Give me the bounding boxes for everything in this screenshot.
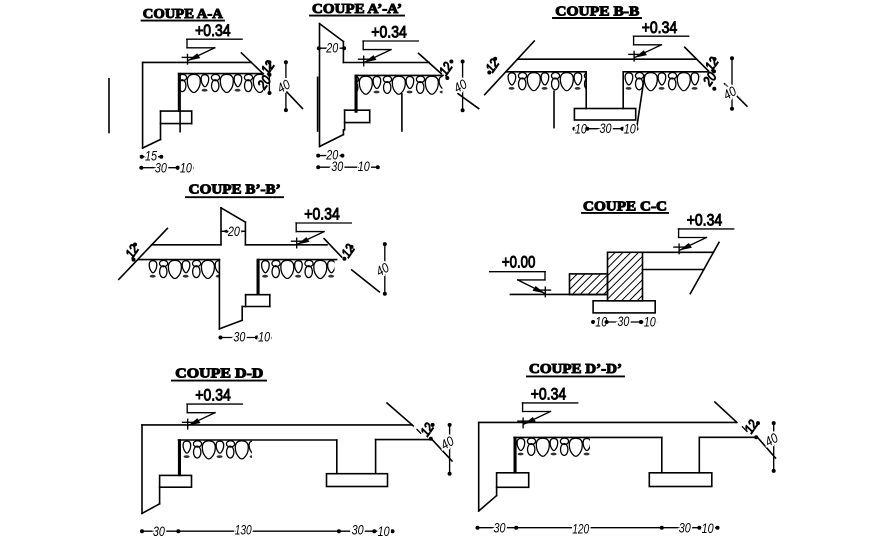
svg-text:+0.00: +0.00 xyxy=(502,253,536,272)
svg-text:10: 10 xyxy=(258,328,270,344)
svg-text:10: 10 xyxy=(702,520,714,536)
svg-text:30: 30 xyxy=(331,158,343,174)
svg-text:+0.34: +0.34 xyxy=(371,23,407,42)
svg-text:30: 30 xyxy=(600,120,612,136)
svg-text:10: 10 xyxy=(378,523,390,539)
svg-text:30: 30 xyxy=(153,523,165,539)
svg-text:30: 30 xyxy=(494,519,506,535)
svg-text:20: 20 xyxy=(227,224,240,239)
svg-text:120: 120 xyxy=(572,521,589,537)
svg-text:+0.34: +0.34 xyxy=(531,385,567,404)
svg-text:30: 30 xyxy=(155,159,167,175)
svg-text:30: 30 xyxy=(679,519,691,535)
svg-text:COUPE B’-B’: COUPE B’-B’ xyxy=(189,182,281,197)
svg-text:10: 10 xyxy=(644,314,656,330)
svg-text:30: 30 xyxy=(233,328,245,344)
svg-text:10: 10 xyxy=(180,159,192,175)
svg-text:130: 130 xyxy=(235,522,252,538)
svg-text:10: 10 xyxy=(624,121,636,137)
svg-text:20: 20 xyxy=(326,39,339,55)
svg-text:+0.34: +0.34 xyxy=(304,205,340,224)
svg-text:+0.34: +0.34 xyxy=(195,386,231,405)
svg-text:30: 30 xyxy=(352,522,364,538)
svg-text:+0.34: +0.34 xyxy=(195,21,231,40)
svg-text:30: 30 xyxy=(617,313,629,329)
svg-text:10: 10 xyxy=(358,158,370,174)
svg-text:+0.34: +0.34 xyxy=(687,211,723,230)
svg-text:COUPE D’-D’: COUPE D’-D’ xyxy=(529,362,622,377)
svg-text:+0.34: +0.34 xyxy=(642,18,678,37)
svg-text:COUPE D-D: COUPE D-D xyxy=(175,366,263,381)
